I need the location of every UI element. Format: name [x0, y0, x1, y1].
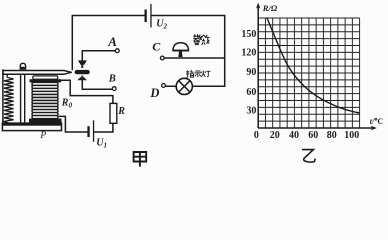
svg-text:D: D	[149, 86, 159, 100]
svg-text:60: 60	[308, 130, 318, 141]
svg-text:2: 2	[163, 23, 168, 31]
svg-text:P: P	[39, 131, 46, 141]
svg-text:R: R	[117, 106, 125, 117]
svg-text:1: 1	[104, 142, 108, 150]
svg-text:90: 90	[246, 67, 256, 78]
svg-text:120: 120	[241, 47, 256, 58]
svg-text:C: C	[152, 40, 161, 54]
svg-text:R/Ω: R/Ω	[262, 3, 278, 13]
svg-text:0: 0	[69, 102, 73, 110]
svg-text:60: 60	[246, 87, 256, 98]
svg-text:0: 0	[254, 130, 259, 141]
svg-text:B: B	[108, 73, 116, 84]
svg-text:30: 30	[246, 105, 256, 116]
svg-text:40: 40	[289, 130, 299, 141]
svg-text:R: R	[61, 98, 69, 109]
svg-text:80: 80	[327, 130, 337, 141]
svg-text:100: 100	[344, 130, 359, 141]
svg-text:A: A	[107, 34, 117, 49]
svg-text:C: C	[377, 117, 383, 126]
svg-text:20: 20	[270, 130, 280, 141]
svg-text:150: 150	[241, 29, 256, 40]
svg-text:t/: t/	[370, 117, 375, 126]
